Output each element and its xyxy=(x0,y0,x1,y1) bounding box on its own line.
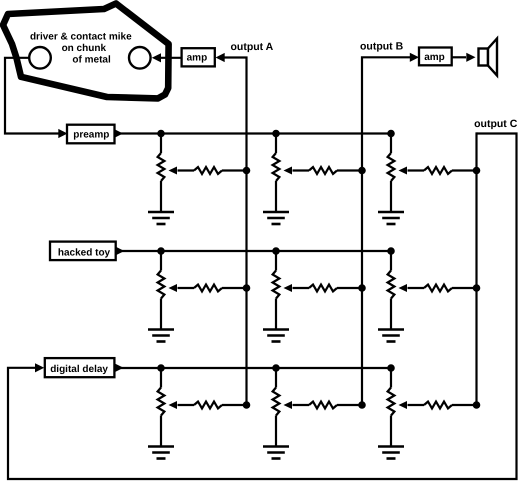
node: row 3 / pot B top junction xyxy=(272,364,280,372)
node: column A / row 1 wiper junction xyxy=(243,167,251,175)
wiper arrow into pot R2C xyxy=(399,284,408,292)
wire: amp U2 to speaker xyxy=(451,56,466,58)
wire: column B bus (output B) xyxy=(362,57,410,405)
wiper arrow into pot R1B xyxy=(284,167,293,175)
wiper arrow into pot R3C xyxy=(399,401,408,409)
arrow out of hacked toy xyxy=(115,246,124,255)
potentiometer R3B xyxy=(273,368,280,447)
resistor (row 2 wiper to column A) xyxy=(178,285,247,292)
node: row 1 / pot A top junction xyxy=(157,130,165,138)
potentiometer R3C xyxy=(388,368,395,447)
ground (row 3, col A) xyxy=(148,447,174,459)
potentiometer R2A xyxy=(158,251,165,330)
node: row 3 / pot A top junction xyxy=(157,364,165,372)
preamp box xyxy=(67,125,115,144)
resistor (row 1 wiper to column B) xyxy=(293,167,363,174)
svg-text:hacked toy: hacked toy xyxy=(58,248,111,259)
arrow into driver circle xyxy=(152,53,161,62)
wiper arrow into pot R3A xyxy=(169,401,178,409)
wire: column C bus (output C) xyxy=(475,132,477,405)
potentiometer R2C xyxy=(388,251,395,330)
svg-text:output A: output A xyxy=(231,41,274,53)
hacked toy box xyxy=(50,242,116,261)
svg-text:output C: output C xyxy=(474,118,518,130)
resistor (row 2 wiper to column C) xyxy=(408,285,477,292)
resistor (row 3 wiper to column B) xyxy=(293,402,363,409)
arrow into speaker xyxy=(466,53,475,62)
svg-text:on chunk: on chunk xyxy=(62,43,107,54)
node: column A / row 2 wiper junction xyxy=(243,284,251,292)
ground (row 1, col B) xyxy=(263,212,289,224)
driver transducer (left circle) xyxy=(29,47,51,69)
node: column C / row 1 wiper junction xyxy=(473,167,481,175)
wiper arrow into pot R1A xyxy=(169,167,178,175)
svg-text:of metal: of metal xyxy=(72,54,111,65)
ground (row 2, col B) xyxy=(263,330,289,342)
svg-text:driver & contact mike: driver & contact mike xyxy=(30,31,132,42)
wire: row 3 bus (digital delay output) xyxy=(116,367,392,369)
node: column C / row 2 wiper junction xyxy=(473,284,481,292)
wire: row 1 bus (preamp output) xyxy=(115,132,392,134)
wiper arrow into pot R2B xyxy=(284,284,293,292)
wiper arrow into pot R2A xyxy=(169,284,178,292)
arrow into digital delay xyxy=(35,363,44,372)
arrow out of preamp xyxy=(114,129,123,138)
node: row 1 / pot C top junction xyxy=(387,130,395,138)
resistor (row 1 wiper to column C) xyxy=(408,167,477,174)
node: column C / row 3 wiper junction xyxy=(473,401,481,409)
wire: row 2 bus (hacked toy output) xyxy=(115,250,391,252)
svg-text:amp: amp xyxy=(187,52,208,63)
potentiometer R1A xyxy=(158,134,165,213)
wire: amp U1 to driver xyxy=(161,57,182,59)
node: row 3 / pot C top junction xyxy=(387,364,395,372)
potentiometer R1C xyxy=(388,134,395,213)
node: row 2 / pot A top junction xyxy=(157,247,165,255)
ground (row 2, col A) xyxy=(148,330,174,342)
potentiometer R1B xyxy=(273,134,280,213)
resistor (row 2 wiper to column B) xyxy=(293,285,363,292)
wiper arrow into pot R3B xyxy=(284,401,293,409)
label: driver & contact mike on chunk of metal xyxy=(30,31,132,65)
node: row 2 / pot B top junction xyxy=(272,247,280,255)
ground (row 3, col B) xyxy=(263,447,289,459)
svg-text:digital delay: digital delay xyxy=(50,364,108,375)
arrow into amp U2 xyxy=(410,53,419,62)
resistor (row 1 wiper to column A) xyxy=(178,167,247,174)
resistor (row 3 wiper to column A) xyxy=(178,402,247,409)
svg-text:amp: amp xyxy=(424,52,445,63)
node: column B / row 2 wiper junction xyxy=(358,284,366,292)
ground (row 3, col C) xyxy=(378,447,404,459)
potentiometer R3A xyxy=(158,368,165,447)
svg-text:output B: output B xyxy=(360,41,404,53)
ground (row 1, col A) xyxy=(148,212,174,224)
wire: column A bus (output A) xyxy=(224,58,247,406)
arrow into preamp xyxy=(58,129,67,138)
arrow out of digital delay xyxy=(114,363,123,372)
arrow into amp U1 xyxy=(216,53,225,62)
node: column B / row 1 wiper junction xyxy=(358,167,366,175)
resistor (row 3 wiper to column C) xyxy=(408,402,477,409)
speaker xyxy=(479,39,498,76)
node: column A / row 3 wiper junction xyxy=(243,401,251,409)
chunk of metal (blob outline) xyxy=(3,4,169,99)
node: column B / row 3 wiper junction xyxy=(358,401,366,409)
amp U2 box xyxy=(419,48,452,66)
ground (row 2, col C) xyxy=(378,330,404,342)
digital delay box xyxy=(45,358,115,377)
node: row 1 / pot B top junction xyxy=(272,130,280,138)
wiper arrow into pot R1C xyxy=(399,167,408,175)
wire: feedback from output C to digital delay input xyxy=(8,134,517,480)
contact mike (right circle) xyxy=(129,47,151,69)
wire: driver circle to left edge xyxy=(5,58,59,134)
node: row 2 / pot C top junction xyxy=(387,247,395,255)
ground (row 1, col C) xyxy=(378,212,404,224)
potentiometer R2B xyxy=(273,251,280,330)
svg-text:preamp: preamp xyxy=(73,130,109,141)
amp U1 box xyxy=(182,48,215,66)
